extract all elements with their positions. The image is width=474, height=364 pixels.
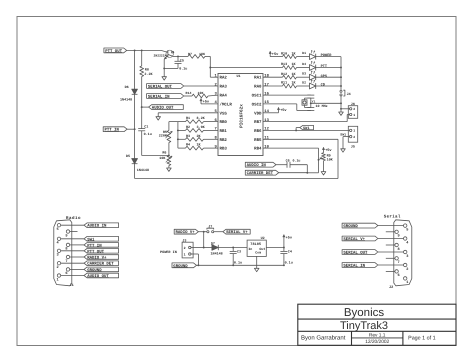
- junction PTT LED row tap: [209, 67, 211, 69]
- connector J6: [348, 106, 357, 119]
- svg-text:2: 2: [353, 135, 355, 139]
- svg-text:RA2: RA2: [220, 76, 228, 81]
- node SERIAL V+ label: [223, 229, 250, 234]
- node SERIAL OUT label: [147, 84, 184, 89]
- node J2 SERIAL IN label: [342, 263, 378, 268]
- wire RB4 pin 10 to audio node: [263, 147, 319, 149]
- junction on PTT OUT line at D6 column: [134, 49, 136, 51]
- wire RB7 pin 13 to J6 pin 1: [263, 121, 347, 123]
- svg-text:SW1: SW1: [87, 237, 95, 242]
- svg-text:D6: D6: [125, 85, 129, 90]
- svg-text:14: 14: [264, 109, 269, 114]
- junction C3 tap: [232, 247, 234, 249]
- junction carrier node: [306, 172, 308, 174]
- wire R13 to LED D4: [297, 67, 310, 69]
- J1 pin 8: [66, 243, 69, 246]
- svg-text:3: 3: [57, 253, 59, 258]
- svg-text:D1: D1: [302, 51, 306, 55]
- svg-text:Com: Com: [255, 251, 261, 255]
- svg-text:SW1: SW1: [340, 133, 346, 137]
- wire Q1 emitter to ground: [163, 59, 165, 76]
- svg-text:18: 18: [264, 74, 269, 79]
- J1 pin 2: [57, 262, 60, 265]
- resistor R8 2.2K: [141, 50, 143, 66]
- junction PTT IN: [134, 128, 136, 130]
- ground below R9: [321, 172, 326, 175]
- title block frame: [298, 304, 456, 345]
- svg-text:17: 17: [264, 82, 269, 87]
- svg-text:0.1u: 0.1u: [179, 67, 187, 72]
- J1 pin 6: [66, 268, 69, 271]
- jumper J4: [340, 90, 342, 92]
- wire J4 to ground: [340, 96, 342, 112]
- wire J2 pin 9 stub: [386, 231, 395, 233]
- svg-text:1: 1: [353, 113, 355, 117]
- svg-text:+5v: +5v: [286, 235, 293, 240]
- node J1 GROUND label: [70, 268, 84, 270]
- svg-text:10K: 10K: [327, 157, 334, 162]
- wire R10 to LED D1: [297, 56, 310, 58]
- svg-text:PTT OUT: PTT OUT: [87, 249, 104, 254]
- svg-text:5: 5: [406, 227, 408, 232]
- wire LED D1 cathode to common: [316, 56, 341, 58]
- svg-text:RADIO V+: RADIO V+: [87, 255, 107, 260]
- svg-text:2: 2: [353, 107, 355, 111]
- wire PTT OUT down to D6: [134, 50, 136, 89]
- resistor R10 1K: [283, 55, 297, 59]
- resistor R12 1K: [283, 75, 297, 79]
- ground below U2: [254, 268, 259, 271]
- wire LED D4 cathode to common: [316, 67, 341, 69]
- power +5v at /MCLR: [201, 103, 218, 105]
- wire VDD pin 14 to +5v: [263, 112, 279, 114]
- LED D2 CD: [310, 83, 316, 89]
- svg-text:AUDIO OUT: AUDIO OUT: [87, 274, 109, 279]
- junction power input: [203, 231, 205, 233]
- svg-text:1: 1: [57, 277, 59, 282]
- svg-text:GROUND: GROUND: [343, 224, 358, 229]
- svg-text:R8: R8: [145, 68, 149, 73]
- svg-text:R3: R3: [186, 134, 190, 139]
- svg-text:C4: C4: [288, 250, 292, 255]
- svg-text:Byonics: Byonics: [344, 307, 385, 319]
- power +5v at POWER LED row: [269, 53, 271, 56]
- svg-text:2: 2: [184, 246, 186, 250]
- svg-text:13: 13: [264, 118, 269, 123]
- svg-text:In: In: [248, 247, 252, 251]
- wire DAC common vertical: [177, 122, 179, 149]
- svg-text:0.1u: 0.1u: [293, 158, 301, 162]
- svg-text:0.1u: 0.1u: [234, 261, 242, 266]
- node J1 SW1 label: [61, 238, 84, 240]
- svg-text:PTT IN: PTT IN: [105, 128, 120, 133]
- svg-text:Rev 1.1: Rev 1.1: [369, 332, 386, 338]
- svg-text:RB2: RB2: [220, 138, 228, 143]
- svg-text:CARRIER DET: CARRIER DET: [87, 262, 114, 267]
- svg-text:Byon Garrabrant: Byon Garrabrant: [301, 335, 346, 342]
- svg-text:PTT: PTT: [321, 64, 328, 69]
- power +5v at regulator output: [283, 237, 285, 240]
- svg-text:12: 12: [264, 127, 269, 132]
- svg-text:SERIAL V+: SERIAL V+: [226, 230, 248, 235]
- svg-text:VDD: VDD: [254, 111, 262, 116]
- resistor R3 2K: [178, 138, 186, 140]
- J1 pin 7: [66, 255, 69, 258]
- svg-text:/MCLR: /MCLR: [220, 102, 233, 107]
- svg-text:R14: R14: [186, 91, 192, 95]
- wire LED D2 cathode to common: [316, 85, 341, 87]
- svg-text:220K: 220K: [159, 134, 168, 139]
- svg-text:GPS: GPS: [321, 74, 328, 79]
- node PTT IN label: [103, 127, 127, 132]
- svg-text:6: 6: [398, 273, 400, 278]
- svg-text:R11: R11: [281, 81, 287, 86]
- wire R9 to ground: [323, 161, 325, 172]
- svg-text:R10: R10: [281, 51, 287, 56]
- wire J7 to SERIAL V+: [214, 231, 223, 233]
- svg-text:AUDIO OUT: AUDIO OUT: [152, 106, 174, 111]
- svg-text:SERIAL IN: SERIAL IN: [148, 94, 170, 99]
- svg-text:2: 2: [406, 267, 408, 272]
- wire RA0 pin 17 to CD row: [263, 85, 283, 87]
- svg-text:1N4148: 1N4148: [137, 168, 149, 173]
- svg-text:Y1: Y1: [312, 99, 316, 103]
- wire U2 common to ground: [256, 256, 258, 268]
- power +5v at R9: [323, 150, 325, 153]
- svg-text:C5: C5: [180, 59, 184, 64]
- wire bottom rail to RB5: [135, 178, 338, 180]
- svg-text:10K: 10K: [198, 91, 204, 95]
- svg-text:8: 8: [398, 247, 400, 252]
- wire J1 pin 9 stub: [70, 231, 78, 233]
- svg-text:7: 7: [398, 260, 400, 265]
- svg-text:1N4148: 1N4148: [120, 98, 132, 103]
- svg-text:POWER IN: POWER IN: [160, 250, 177, 255]
- wire R14 to RA4 pin 3: [208, 94, 218, 97]
- ground below J5: [341, 149, 346, 152]
- svg-text:R4: R4: [186, 143, 190, 148]
- regulator U2 78L05: [247, 240, 266, 256]
- resistor R11 1K: [283, 84, 297, 88]
- wire RA2 node to PTT LED row: [210, 67, 282, 69]
- resistor R2 3.9K: [178, 129, 186, 131]
- wire U2 out to +5v: [266, 247, 284, 249]
- wire R8 to C1: [141, 77, 143, 129]
- svg-text:3.9K: 3.9K: [197, 125, 206, 130]
- capacitor C6 0.1u: [286, 162, 288, 168]
- diode D5 1N4148: [132, 159, 138, 164]
- svg-text:AUDIO IN: AUDIO IN: [87, 224, 107, 229]
- svg-text:1: 1: [406, 280, 408, 285]
- svg-text:D2: D2: [302, 80, 306, 84]
- J1 pin 4: [57, 237, 60, 240]
- svg-text:J3: J3: [182, 238, 186, 243]
- wire R5 to R6: [168, 143, 170, 156]
- wire C1 to R5/R6 junction: [141, 131, 143, 156]
- svg-text:SERIAL V+: SERIAL V+: [343, 237, 365, 242]
- svg-text:0.1u: 0.1u: [285, 261, 293, 266]
- node RADIO V+ label: [174, 229, 198, 234]
- junction on PTT OUT line at R8 column: [141, 49, 143, 51]
- svg-text:RB1: RB1: [220, 129, 228, 134]
- svg-text:C6: C6: [286, 158, 290, 162]
- svg-text:R13: R13: [281, 62, 287, 67]
- wire VSS to ground: [158, 112, 218, 114]
- svg-text:SERIAL OUT: SERIAL OUT: [343, 250, 368, 255]
- svg-text:1: 1: [353, 129, 355, 133]
- J2 pin 5: [404, 224, 407, 227]
- svg-text:AUDIO IN: AUDIO IN: [247, 163, 267, 168]
- svg-text:D3: D3: [302, 72, 306, 76]
- junction R9 wiper: [318, 159, 320, 161]
- svg-text:RA0: RA0: [254, 84, 262, 89]
- wire Q1 collector to R7: [173, 55, 188, 57]
- wire R6 to ground: [168, 166, 170, 169]
- J2 pin 8: [395, 243, 398, 246]
- svg-text:OSC2: OSC2: [252, 102, 262, 107]
- svg-text:10: 10: [264, 144, 269, 149]
- svg-text:R2: R2: [186, 125, 190, 130]
- svg-text:OSC1: OSC1: [252, 94, 262, 99]
- svg-text:Q1: Q1: [171, 50, 175, 54]
- wire PTT OUT to Q1 base: [127, 49, 161, 51]
- svg-text:9: 9: [65, 233, 67, 238]
- LED D4 PTT: [310, 65, 316, 71]
- wire ground rail: [197, 264, 284, 266]
- node J1 CARRIER DET label: [61, 262, 84, 264]
- ground at VSS: [156, 117, 161, 120]
- node J1 PTT OUT label: [61, 250, 84, 252]
- svg-text:C3: C3: [237, 250, 241, 255]
- svg-text:16: 16: [264, 91, 269, 96]
- svg-text:RA4: RA4: [220, 94, 228, 99]
- J1 pin 1: [57, 274, 60, 277]
- svg-text:2: 2: [57, 265, 59, 270]
- svg-text:3: 3: [406, 254, 408, 259]
- svg-text:RB4: RB4: [254, 147, 262, 152]
- svg-text:RADIO V+: RADIO V+: [176, 230, 196, 235]
- svg-text:12/20/2002: 12/20/2002: [365, 339, 389, 345]
- svg-text:J4: J4: [347, 92, 351, 97]
- resistor R13 1K: [283, 66, 297, 70]
- power +5v at VDD: [278, 110, 280, 113]
- resistor R4 1K: [178, 147, 186, 149]
- node AUDIO IN label: [245, 162, 276, 167]
- J1 pin 9: [66, 230, 69, 233]
- svg-text:2N2222A: 2N2222A: [154, 53, 167, 57]
- node J1 AUDIO IN label: [61, 224, 84, 226]
- wire RB6 pin 12 to J5 pin 1: [263, 129, 350, 131]
- wire J3 pin 1 to ground rail: [191, 253, 198, 255]
- svg-text:RB3: RB3: [220, 147, 228, 152]
- potentiometer R9 10K: [322, 153, 326, 161]
- svg-text:GROUND: GROUND: [173, 264, 188, 269]
- node J2 SERIAL V+ label: [342, 236, 378, 241]
- resistor R1 8.2K: [178, 121, 186, 123]
- transistor Q1 2N2222A: [166, 50, 173, 57]
- wire LED D3 cathode to common: [316, 76, 341, 78]
- J2 pin 3: [404, 250, 407, 253]
- ground below Q1: [162, 77, 167, 80]
- svg-text:RB0: RB0: [220, 120, 228, 125]
- svg-text:R1: R1: [186, 116, 190, 121]
- svg-text:1N4148: 1N4148: [211, 252, 223, 257]
- wire J3 pin 2 to power junction: [191, 247, 204, 249]
- svg-text:J5: J5: [351, 145, 355, 150]
- svg-text:CARRIER DET: CARRIER DET: [247, 171, 274, 176]
- wire C6 to carrier node: [290, 164, 307, 166]
- wire R12 to LED D3: [297, 76, 310, 78]
- svg-text:RA1: RA1: [254, 76, 262, 81]
- svg-text:J7: J7: [208, 224, 212, 229]
- svg-text:POWER: POWER: [321, 53, 333, 58]
- wire J2 pin 6 stub: [386, 270, 395, 272]
- wire D6 to PTT IN node: [134, 94, 136, 158]
- wire D5 to bottom rail: [134, 164, 136, 179]
- svg-text:RB7: RB7: [254, 120, 262, 125]
- svg-text:TinyTrak3: TinyTrak3: [340, 320, 388, 332]
- capacitor C4 0.1u: [283, 248, 285, 252]
- svg-text:R6: R6: [162, 151, 166, 156]
- connector J3 POWER IN: [182, 242, 193, 258]
- capacitor C1 0.1u: [138, 128, 145, 130]
- ground below R6: [167, 168, 172, 171]
- svg-text:C1: C1: [144, 125, 148, 130]
- svg-text:J1: J1: [70, 283, 74, 288]
- svg-text:R12: R12: [281, 72, 287, 77]
- svg-text:RB5: RB5: [254, 138, 262, 143]
- J2 pin 1: [404, 277, 407, 280]
- wire crystal cap link: [310, 98, 312, 107]
- node GROUND label: [172, 263, 197, 268]
- J1 pin 5: [57, 224, 60, 227]
- wire RA1 pin 18 to GPS row: [263, 76, 283, 78]
- svg-text:RB6: RB6: [254, 129, 262, 134]
- ground below LED common: [339, 112, 344, 115]
- svg-text:VSS: VSS: [220, 111, 228, 116]
- svg-text:SW1: SW1: [303, 126, 309, 131]
- svg-text:GROUND: GROUND: [87, 268, 102, 273]
- svg-text:D5: D5: [126, 154, 130, 159]
- capacitor at OSC1: [307, 94, 314, 96]
- svg-text:PTT OUT: PTT OUT: [105, 49, 122, 54]
- svg-text:PTT IN: PTT IN: [87, 243, 102, 248]
- wire J2 pin 7 stub: [386, 257, 395, 259]
- resistor R14 10K: [192, 94, 208, 98]
- svg-text:9: 9: [398, 234, 400, 239]
- svg-text:U2: U2: [261, 236, 265, 241]
- jumper J7: [207, 231, 209, 233]
- svg-text:1: 1: [184, 252, 186, 256]
- wire CARRIER DET to node: [279, 172, 308, 174]
- node J2 SERIAL OUT label: [342, 250, 378, 255]
- wire C5 bottom to Q1 emitter ground: [164, 67, 178, 69]
- svg-text:10 MHz: 10 MHz: [316, 104, 328, 109]
- junction SW1 tap: [295, 129, 297, 131]
- wire SERIAL IN to R14: [184, 95, 192, 97]
- wire ground line to J6 pin 2: [341, 108, 350, 110]
- J2 pin 7: [395, 257, 398, 260]
- svg-text:15: 15: [264, 100, 269, 105]
- svg-text:0.1u: 0.1u: [144, 132, 152, 137]
- svg-text:+5v: +5v: [280, 108, 287, 113]
- wire AUDIO IN to C6: [276, 164, 287, 166]
- svg-text:2.2K: 2.2K: [144, 72, 153, 77]
- svg-text:5: 5: [57, 227, 59, 232]
- svg-text:10K: 10K: [199, 52, 205, 56]
- potentiometer R6 10K: [167, 156, 171, 166]
- J2 pin 9: [395, 230, 398, 233]
- capacitor C3 0.1u: [232, 248, 234, 252]
- wire R5 top to R1 row: [169, 121, 178, 123]
- IC U1 PIC16F628 microcontroller: [218, 74, 263, 156]
- svg-text:8.2K: 8.2K: [197, 116, 206, 121]
- J2 pin 2: [404, 263, 407, 266]
- wire J5 pin 2 to ground: [343, 136, 350, 138]
- resistor R7 10K: [188, 55, 205, 59]
- diode D6 1N4148: [132, 89, 138, 94]
- svg-text:U1: U1: [237, 74, 241, 79]
- junction AUDIO OUT tap: [141, 106, 143, 108]
- connector J5 SW1: [348, 126, 357, 142]
- svg-text:D7: D7: [211, 241, 215, 246]
- svg-text:J6: J6: [351, 102, 355, 107]
- wire audio node bottom: [307, 172, 318, 174]
- diode D7 1N4148: [204, 247, 212, 249]
- wire crystal to ground line: [311, 102, 341, 104]
- wire R7 to RA2 pin 1: [205, 55, 210, 57]
- svg-text:D4: D4: [302, 62, 306, 66]
- svg-text:10K: 10K: [159, 156, 166, 161]
- svg-text:SERIAL IN: SERIAL IN: [343, 263, 365, 268]
- node CARRIER DET label: [245, 170, 278, 175]
- wire R11 to LED D2: [297, 85, 310, 87]
- svg-text:11: 11: [264, 136, 269, 141]
- wire J2 pin 8 stub: [386, 244, 395, 246]
- svg-text:R7: R7: [188, 52, 192, 56]
- wire OSC1 pin 16 to crystal: [263, 94, 311, 96]
- node SERIAL IN label: [147, 94, 184, 99]
- wire LED cathode common vertical: [340, 57, 342, 91]
- wire SERIAL OUT to RA3 pin 2: [184, 85, 218, 87]
- wire power junction down to D7 row: [203, 232, 205, 248]
- node PTT OUT label: [104, 48, 127, 53]
- J1 pin 3: [57, 249, 60, 252]
- junction C1 join: [168, 155, 170, 157]
- svg-text:RA3: RA3: [220, 84, 228, 89]
- J2 pin 6: [395, 270, 398, 273]
- wire D7 to regulator: [218, 247, 247, 249]
- J2 pin 4: [404, 237, 407, 240]
- junction C5 tap: [177, 55, 179, 57]
- svg-text:J2: J2: [389, 285, 393, 290]
- node J1 AUDIO OUT label: [61, 275, 84, 277]
- svg-text:Page 1 of 1: Page 1 of 1: [408, 335, 436, 341]
- node J1 PTT IN label: [70, 244, 84, 246]
- svg-text:SERIAL OUT: SERIAL OUT: [148, 84, 173, 89]
- wire RADIO V+ to J7: [198, 231, 207, 233]
- node J2 GROUND label: [342, 223, 378, 228]
- crystal Y1 10 MHz: [302, 100, 307, 105]
- svg-text:+5v: +5v: [203, 99, 210, 104]
- node J1 RADIO V+ label: [70, 256, 84, 258]
- svg-text:+5v: +5v: [325, 148, 332, 153]
- node AUDIO OUT label: [142, 106, 149, 108]
- node SW1 label: [295, 128, 297, 131]
- LED D3 GPS: [310, 74, 316, 80]
- potentiometer R5 220K: [167, 131, 171, 143]
- wire OSC2 pin 15 to crystal: [263, 103, 297, 105]
